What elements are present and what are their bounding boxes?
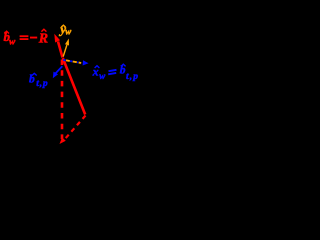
svg-text:R: R xyxy=(38,31,48,46)
svg-text:t,p: t,p xyxy=(36,79,48,89)
vector y_w (orange arrow up) xyxy=(63,45,67,57)
svg-text:w: w xyxy=(99,71,106,81)
label: ŷ_w (orange) xyxy=(58,22,72,37)
wire: red dashed diagonal to Earth direction xyxy=(65,116,86,140)
label: b̂_t,p (blue, lower-left) xyxy=(29,73,48,89)
svg-text:t,p: t,p xyxy=(126,72,139,82)
label: x̂_w ≈ b̂_t,p (blue, right of dashed arrow) xyxy=(92,64,139,82)
svg-text:w: w xyxy=(65,27,72,37)
small blue annotation arrow pointing down-left to label xyxy=(55,66,62,73)
vector b_w = -R (red arrow up-left) xyxy=(58,42,63,58)
wire: red dashed vertical line (local vertical) xyxy=(61,60,64,140)
arrowhead of red dashed diagonal (points down-left) xyxy=(60,137,66,144)
label: b̂_w = −R̂ (red, top-left) xyxy=(4,29,49,47)
wire: red solid line from origin down-right (position vector R) xyxy=(63,58,85,115)
svg-text:w: w xyxy=(9,37,16,47)
vector x_w / b_t,p : dashed orange+blue arrow to the right xyxy=(63,59,65,61)
